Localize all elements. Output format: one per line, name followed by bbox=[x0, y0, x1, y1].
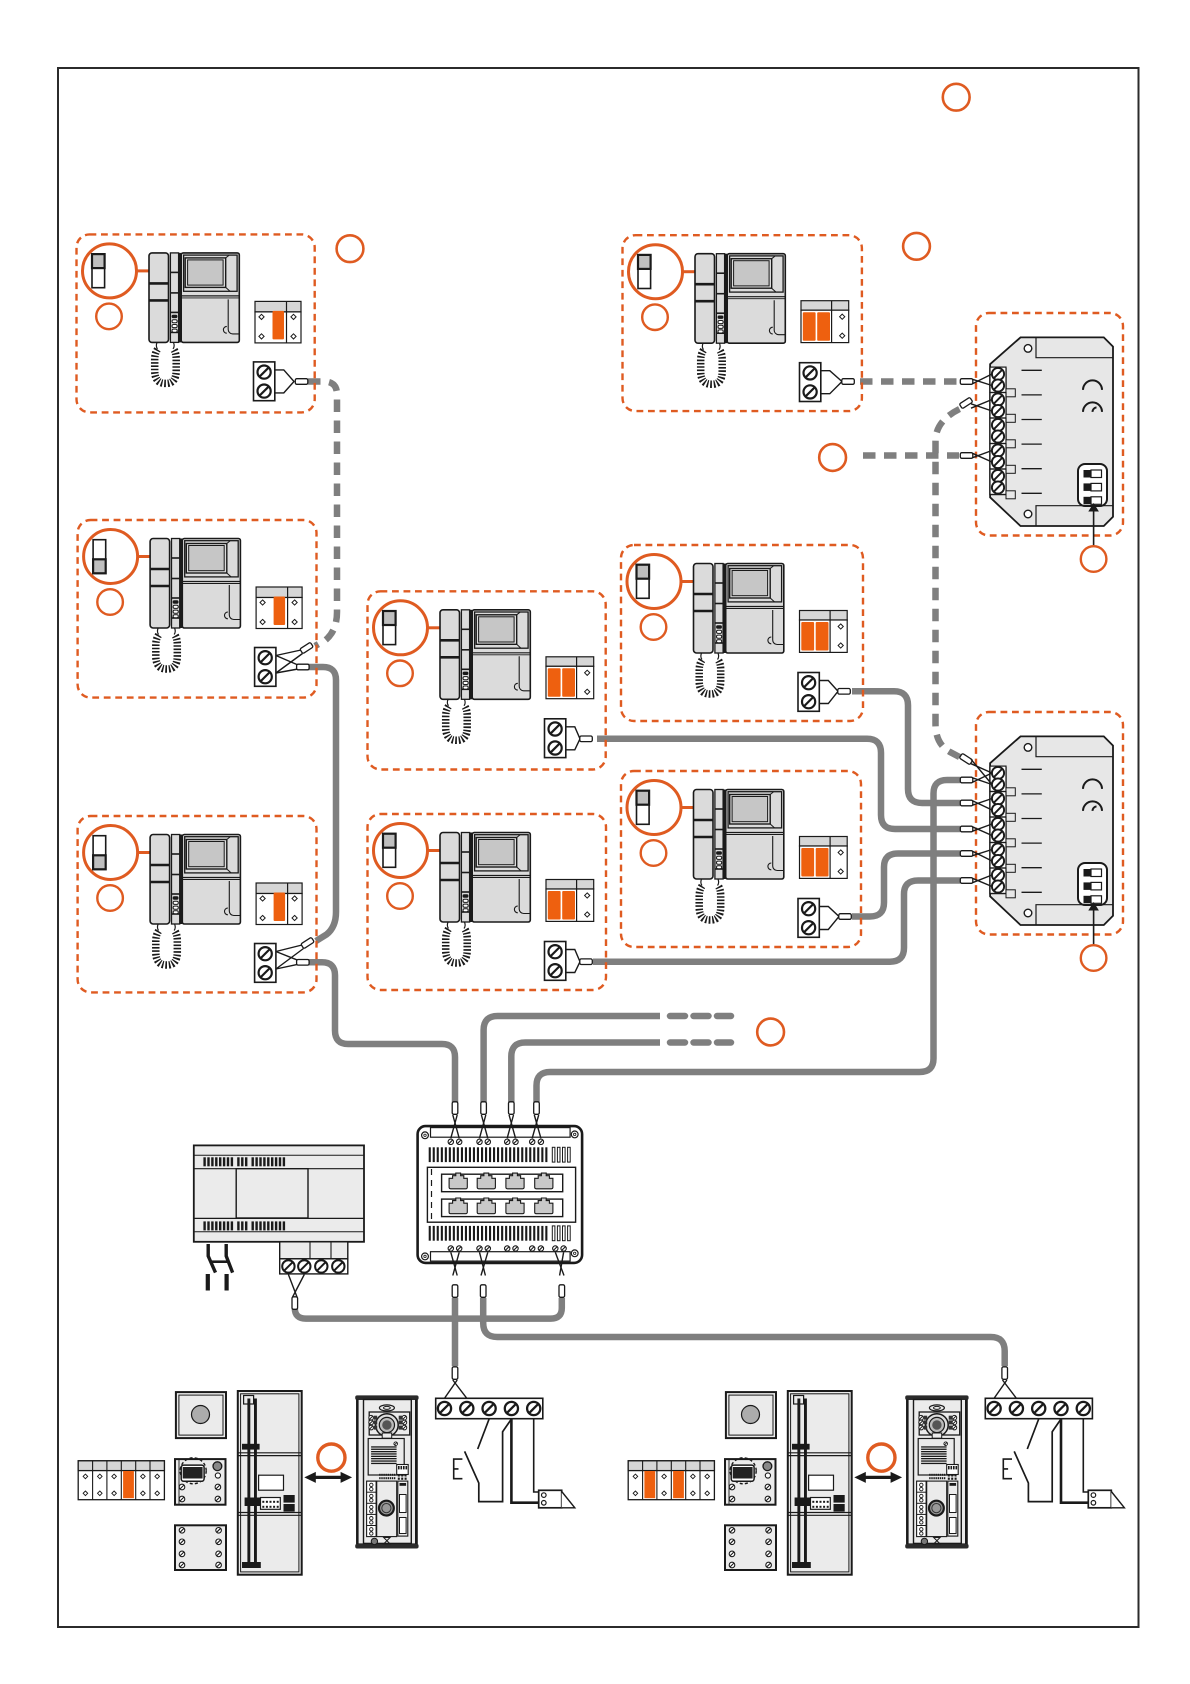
connector block unit C1 bbox=[801, 301, 849, 343]
relay interface 1: terminal strip bbox=[990, 369, 1006, 495]
wire: unit B1 terminal to relay interface 2 bbox=[597, 739, 960, 829]
jumper switch unit C1 bbox=[638, 255, 651, 289]
entrance kit 1: assembly arrow bbox=[314, 1476, 342, 1479]
jumper switch unit C2 bbox=[637, 565, 650, 599]
fork connector unit B1 bbox=[566, 727, 580, 750]
apartment unit B1: dashed zone bbox=[368, 591, 606, 769]
relay interface 1: DIP arrow callout bbox=[1093, 510, 1095, 546]
apartment unit A2: dashed zone bbox=[78, 520, 317, 698]
callout circle entrance kit 2 bbox=[868, 1444, 895, 1471]
callout circle (switch detail) unit C2 bbox=[627, 555, 681, 609]
video handset unit C1 bbox=[695, 254, 785, 385]
video handset unit B1 bbox=[440, 610, 530, 741]
video handset unit A3 bbox=[150, 835, 240, 966]
power supply output terminal block bbox=[280, 1242, 348, 1259]
relay interface 2: CE mark bbox=[1083, 779, 1102, 789]
jumper switch unit A3 bbox=[93, 836, 106, 870]
entrance kit 2: speaker module bbox=[725, 1459, 776, 1505]
wire: unit C2 terminal to relay interface 2 bbox=[852, 691, 960, 803]
entrance kit 1: door lock wiring bbox=[511, 1419, 538, 1503]
callout circle (switch detail) unit C3 bbox=[627, 781, 681, 835]
jumper switch unit A1 bbox=[92, 254, 105, 288]
callout circle (switch detail) unit B2 bbox=[374, 824, 428, 878]
apartment unit C3: dashed zone bbox=[621, 771, 861, 947]
callout circle small unit A2 bbox=[97, 589, 123, 615]
distributor top fork connectors bbox=[453, 1115, 459, 1138]
entrance kit 2: door lock symbol bbox=[1088, 1490, 1111, 1508]
callout circle (switch detail) unit A3 bbox=[84, 826, 138, 880]
wire: unit C1 terminal to relay interface 1 (dashed) bbox=[860, 378, 959, 385]
fork connector unit C2 bbox=[819, 681, 838, 704]
fork connectors relay interface 1 bbox=[960, 379, 973, 385]
entrance kit 2: terminal block bbox=[985, 1398, 1092, 1418]
callout circle relay 2 bbox=[1081, 945, 1107, 971]
riser terminal unit A3 bbox=[255, 944, 276, 983]
connector block unit A3 bbox=[256, 883, 302, 925]
callout circle (switch detail) unit A1 bbox=[83, 244, 137, 298]
callout circle riser2 bbox=[757, 1019, 784, 1046]
power supply vent slots bbox=[203, 1157, 205, 1166]
floor distributor (patch panel) bbox=[418, 1126, 582, 1263]
apartment unit C2: dashed zone bbox=[621, 545, 863, 721]
callout circle (switch detail) unit B1 bbox=[374, 601, 428, 655]
apartment unit A3: dashed zone bbox=[78, 816, 317, 992]
wire: unit B2 terminal to relay interface 2 bbox=[593, 881, 960, 962]
entrance kit 1: speaker module bbox=[175, 1459, 226, 1505]
riser terminal unit C2 bbox=[798, 673, 819, 712]
entrance kit 1: incoming fork connector bbox=[453, 1380, 467, 1398]
apartment unit B2: dashed zone bbox=[368, 814, 607, 990]
mains two-pole switch symbol bbox=[208, 1244, 232, 1273]
riser terminal unit A1 bbox=[254, 362, 275, 401]
video handset unit B2 bbox=[440, 833, 530, 964]
entrance kit 2: door lock wiring bbox=[1061, 1419, 1088, 1503]
distributor bottom fork connectors bbox=[453, 1252, 459, 1275]
callout circle top bbox=[943, 84, 970, 111]
jumper switch unit B2 bbox=[383, 834, 396, 868]
wire: relay interface 1 down to relay interface 2 (dashed riser) bbox=[936, 409, 960, 757]
fork connector unit C1 bbox=[821, 371, 842, 394]
relay interface 1: CE mark bbox=[1083, 380, 1102, 389]
wire: floor distributor to entrance panel 1 terminal bbox=[452, 1298, 459, 1366]
connector block unit B1 bbox=[546, 657, 594, 699]
callout circle small unit C1 bbox=[642, 304, 668, 330]
distributor vent slots bbox=[429, 1147, 431, 1162]
callout circle small unit A3 bbox=[97, 885, 123, 911]
fork connector unit B2 bbox=[566, 950, 580, 973]
relay interface 2: DIP switches bbox=[1078, 863, 1107, 905]
fork connectors relay interface 2 bbox=[959, 753, 973, 765]
callout circle (switch detail) unit A2 bbox=[84, 530, 138, 584]
apartment unit C1: dashed zone bbox=[623, 235, 862, 411]
video handset unit C2 bbox=[694, 564, 784, 695]
wire: floor distributor to entrance panel 2 terminal bbox=[483, 1298, 1005, 1366]
relay interface 2: DIP arrow callout bbox=[1093, 909, 1095, 945]
connector block unit C3 bbox=[800, 837, 848, 879]
apartment unit A1: dashed zone bbox=[77, 234, 315, 412]
riser terminal unit C3 bbox=[798, 899, 819, 938]
distributor bottom terminals bbox=[448, 1246, 453, 1251]
jumper switch unit A2 bbox=[93, 540, 106, 574]
jumper switch unit B1 bbox=[383, 611, 396, 645]
fork connectors unit A3 bbox=[276, 945, 304, 969]
wire: riser continuation stub upper (dashed) bbox=[484, 1016, 660, 1102]
relay interface 2: terminal strip bbox=[990, 768, 1006, 894]
entrance kit 1: blank module bbox=[175, 1525, 226, 1570]
power supply fork connector bbox=[293, 1275, 305, 1298]
entrance kit 2: blank module bbox=[725, 1525, 776, 1570]
entrance kit 1: assembled entrance panel bbox=[357, 1399, 418, 1544]
video handset unit A1 bbox=[149, 253, 239, 384]
callout circle A1 bbox=[337, 235, 364, 262]
fork connector unit A1 bbox=[275, 370, 294, 393]
entrance kit 2: assembled entrance panel bbox=[907, 1399, 968, 1544]
fork connectors unit A2 bbox=[276, 650, 303, 673]
entrance kit 1: push button symbol bbox=[478, 1419, 489, 1449]
entrance kit 1: mounting frame bbox=[238, 1391, 302, 1575]
riser terminal unit B2 bbox=[545, 942, 566, 981]
video handset unit A2 bbox=[150, 539, 240, 670]
distributor top terminals bbox=[448, 1139, 453, 1144]
entrance kit 2: push button symbol bbox=[1027, 1419, 1038, 1449]
entrance kit 1: terminal block bbox=[436, 1398, 543, 1418]
connector block unit A2 bbox=[256, 587, 302, 629]
callout circle C1 bbox=[903, 233, 930, 260]
wire: power supply to floor distributor bbox=[295, 1298, 562, 1319]
video handset unit C3 bbox=[694, 790, 784, 921]
wire: riser unit A1 to unit A2 (dashed grey) bbox=[308, 382, 337, 647]
relay interface 1: body bbox=[990, 337, 1113, 526]
connector block unit B2 bbox=[546, 880, 594, 922]
wire: relay interface 2 down to floor distributor bbox=[537, 780, 961, 1102]
entrance kit 2: connector strip bbox=[628, 1461, 714, 1500]
wire: unit C3 terminal to relay interface 2 bbox=[852, 854, 960, 917]
distributor RJ45 jack field bbox=[427, 1167, 575, 1222]
jumper switch unit C3 bbox=[637, 791, 650, 825]
wire: riser continuation stub lower (dashed) bbox=[511, 1043, 660, 1103]
entrance kit 1: door lock symbol bbox=[539, 1490, 562, 1508]
entrance kit 2: assembly arrow bbox=[864, 1476, 892, 1479]
wire: riser unit A2 to unit A3 bbox=[308, 667, 336, 941]
connector block unit C2 bbox=[800, 611, 848, 653]
connector block unit A1 bbox=[255, 301, 301, 343]
relay interface 2: dashed zone bbox=[976, 712, 1123, 935]
callout circle small unit C3 bbox=[641, 840, 667, 866]
entrance kit 2: camera module bbox=[726, 1392, 776, 1438]
callout circle (switch detail) unit C1 bbox=[629, 245, 683, 299]
riser terminal unit B1 bbox=[545, 719, 566, 758]
relay interface 2: body bbox=[990, 736, 1113, 925]
callout circle small unit A1 bbox=[96, 304, 122, 330]
callout circle relay 1 bbox=[1081, 546, 1107, 572]
callout circle small unit B1 bbox=[387, 661, 413, 687]
callout circle entrance kit 1 bbox=[318, 1444, 345, 1471]
power supply unit bbox=[194, 1145, 364, 1241]
relay interface 1: DIP switches bbox=[1078, 464, 1107, 506]
entrance kit 1: connector strip bbox=[78, 1461, 164, 1500]
riser terminal unit A2 bbox=[255, 648, 276, 687]
callout circle small unit B2 bbox=[387, 883, 413, 909]
entrance kit 2: mounting frame bbox=[788, 1391, 852, 1575]
relay interface 1: dashed zone bbox=[976, 313, 1123, 536]
entrance kit 1: camera module bbox=[176, 1392, 226, 1438]
callout circle small unit C2 bbox=[641, 614, 667, 640]
wire: riser unit A3 down to floor distributor bbox=[308, 962, 455, 1102]
callout circle riser1 bbox=[819, 444, 846, 471]
riser terminal unit C1 bbox=[800, 363, 821, 402]
wire: relay interface 1 riser continuation (dashed) bbox=[863, 452, 959, 459]
fork connector unit C3 bbox=[819, 907, 839, 930]
entrance kit 2: incoming fork connector bbox=[1003, 1380, 1017, 1398]
